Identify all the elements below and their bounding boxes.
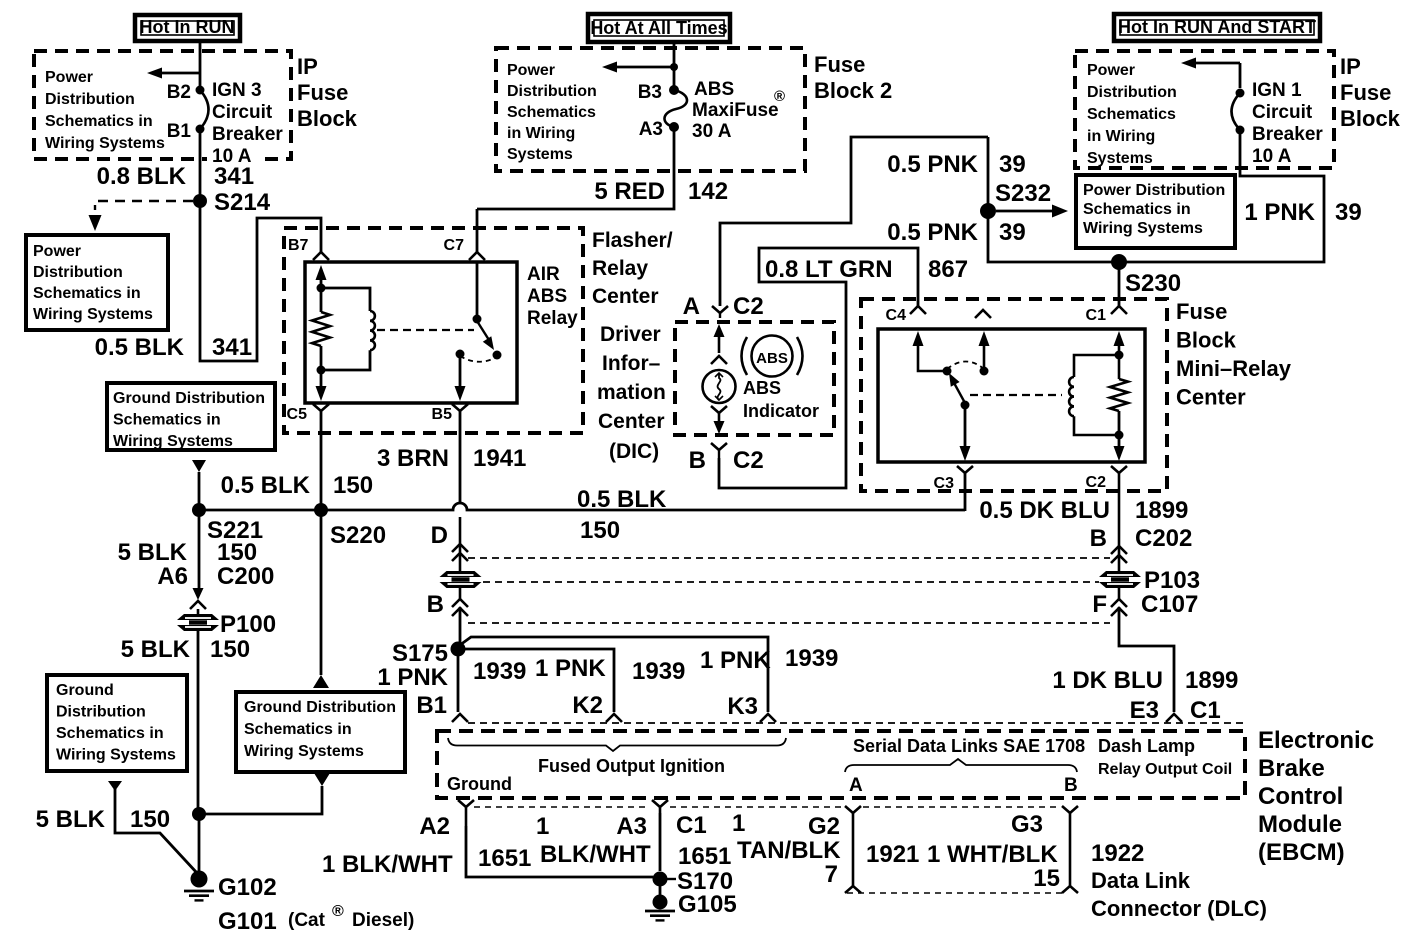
ground junction dot [192,807,206,821]
label box: Hot At All Times [588,14,730,42]
ground symbol G102 [184,890,214,893]
svg-text:C2: C2 [733,293,764,320]
wire: reference B down to G102 [115,789,197,873]
svg-text:BLK/WHT: BLK/WHT [540,841,651,868]
reference box: Power Distribution Schematics in Wiring Systems (solid, left) [26,235,168,330]
svg-text:1941: 1941 [473,445,526,472]
svg-text:Wiring Systems: Wiring Systems [33,306,153,323]
connector K3 chevron (EBCM) [760,714,776,722]
connector B5 [452,404,468,411]
svg-text:Power: Power [33,243,81,260]
wire: C7 into switch [476,262,479,319]
svg-text:K3: K3 [727,693,758,720]
connector C3 [957,466,973,473]
wire: Hot At All Times feed [673,42,676,86]
relay actuation dashed link [377,329,474,331]
EBCM connector face dashed line [468,722,1248,724]
svg-text:Fuse: Fuse [1176,299,1227,324]
IP Fuse Block dashed box (left) [34,51,291,159]
wire: contact down to C3 [964,405,967,449]
harness dashed line 2 [483,581,1099,583]
wire: branch to left arrow (fuse block 2) [614,66,674,69]
wire: DIC B down around 0.8 LT GRN label to C4 [719,248,918,488]
arrow into Power Distribution box [89,215,102,231]
wire: C1 down to S170 [659,813,662,871]
mini relay coil branch [1074,355,1119,377]
svg-text:39: 39 [999,219,1026,246]
svg-text:Infor–: Infor– [602,352,661,375]
in-line connector P103 [1099,571,1141,588]
mini relay contact dot right [980,367,989,376]
svg-text:1 WHT/BLK: 1 WHT/BLK [927,841,1058,868]
svg-text:867: 867 [928,256,968,283]
svg-text:1651: 1651 [678,843,731,870]
chevron below C200 arrow [190,601,206,609]
svg-text:Systems: Systems [507,146,573,163]
svg-text:B5: B5 [432,406,453,423]
wire: 0.5 PNK down from S232 and across to IGN1 riser [988,130,1324,262]
svg-text:Schematics in: Schematics in [244,721,352,738]
wire: junction to Ground Distribution reference C [199,786,322,814]
mini relay resistor [1110,379,1128,411]
svg-text:5 BLK: 5 BLK [36,806,106,833]
connector C7 chevron [469,252,485,260]
splice S214 [193,194,207,208]
svg-text:C7: C7 [444,237,465,254]
mini relay box [878,329,1145,462]
wire below mini resistor [1118,411,1121,435]
svg-text:A3: A3 [639,119,663,140]
svg-text:0.8 LT GRN: 0.8 LT GRN [765,256,893,283]
svg-text:B: B [1064,775,1078,796]
arrow into Power Distribution reference (fuse block 2) [602,62,617,73]
svg-text:Wiring Systems: Wiring Systems [113,433,233,450]
svg-text:(DIC): (DIC) [609,440,659,463]
terminal B3 dot [669,85,679,95]
svg-text:Hot At All Times: Hot At All Times [590,18,727,38]
junction dot at arrow branch [670,63,678,71]
DLC face dashed line [474,806,1060,808]
svg-text:1: 1 [536,813,549,840]
svg-text:S230: S230 [1125,270,1181,297]
svg-text:Power: Power [1087,62,1135,79]
arrow out bottom of relay (B5) [455,386,466,401]
svg-text:Flasher/: Flasher/ [592,229,673,252]
wire: C3 down to ground bus [964,473,967,511]
svg-text:1899: 1899 [1185,667,1238,694]
svg-text:C2: C2 [733,447,764,474]
svg-text:1899: 1899 [1135,497,1188,524]
relay coil [370,311,375,350]
wire: contact down to B5 [459,354,462,388]
svg-text:Ground: Ground [447,774,512,794]
svg-text:1 BLK/WHT: 1 BLK/WHT [322,851,453,878]
svg-text:S220: S220 [330,522,386,549]
terminal B2 dot [196,86,205,95]
wire: S230 down to C1 [1118,262,1121,306]
connector K2 chevron (EBCM) [606,714,622,722]
ground symbol G105 [645,910,675,913]
svg-text:150: 150 [130,806,170,833]
svg-text:Block: Block [1340,106,1401,131]
Flasher/Relay Center dashed box [284,228,583,433]
svg-text:1922: 1922 [1091,840,1144,867]
svg-text:G102: G102 [218,874,277,901]
svg-text:mation: mation [597,381,666,404]
arrow into Power Distribution reference [147,68,162,79]
in-line connector (B side) [440,571,482,588]
svg-text:Module: Module [1258,811,1342,838]
svg-text:Power Distribution: Power Distribution [1083,182,1225,199]
svg-text:Schematics in: Schematics in [33,285,141,302]
DLC pin A [845,806,861,813]
arrow up from right contact [983,343,986,371]
wire: S175 to K2 [458,649,614,712]
svg-text:341: 341 [212,334,252,361]
arrow to DIC box bottom [718,413,721,424]
relay winding junction dot bottom [317,366,326,375]
arrow into reference (IGN1) [1181,58,1196,69]
floating chevron above mini relay [975,310,991,318]
svg-text:150: 150 [217,539,257,566]
svg-text:Power: Power [45,69,93,86]
label box: Hot In RUN [135,15,240,41]
wire: D to in-line connector [459,517,462,571]
svg-text:B: B [1090,525,1107,552]
svg-text:Block 2: Block 2 [814,78,892,103]
svg-text:B: B [689,447,706,474]
mini relay actuation dashed link [970,394,1062,396]
svg-text:Block: Block [1176,328,1237,353]
wire: arrow branch (IGN1) [1193,62,1240,65]
svg-text:(EBCM): (EBCM) [1258,839,1345,866]
svg-text:®: ® [774,88,785,105]
svg-text:Schematics in: Schematics in [56,725,164,742]
svg-text:C3: C3 [934,475,955,492]
in-line connector P100 [177,614,219,631]
AIR ABS Relay box [305,262,517,403]
svg-text:Mini–Relay: Mini–Relay [1176,356,1292,381]
connector D chevrons [452,544,468,552]
svg-text:39: 39 [1335,199,1362,226]
svg-text:1: 1 [732,810,745,837]
connector A C2 at DIC [712,306,728,313]
mini relay switch pivot dot [943,367,952,376]
wire: Hot In RUN feed down to breaker B2 [199,41,202,86]
svg-text:Breaker: Breaker [1252,124,1323,145]
wire: S221 down to P100 [198,510,201,590]
svg-text:Relay: Relay [592,257,648,280]
relay winding junction dot top [317,284,326,293]
svg-text:Distribution: Distribution [507,83,597,100]
svg-text:Distribution: Distribution [1087,84,1177,101]
svg-text:C1: C1 [1086,307,1107,324]
svg-text:150: 150 [580,517,620,544]
mini relay winding dot top [1115,351,1124,360]
svg-text:Hot In RUN And START: Hot In RUN And START [1118,17,1316,37]
svg-text:A: A [683,293,700,320]
svg-text:S232: S232 [995,180,1051,207]
wire: B down to S175 [459,588,462,599]
ground bus wire with hop at D [199,503,965,510]
DLC pin B [1062,806,1078,813]
svg-text:F: F [1092,591,1107,618]
svg-text:1921: 1921 [866,841,919,868]
svg-text:B: B [427,591,444,618]
svg-text:Control: Control [1258,783,1343,810]
Fuse Block 2 dashed box [496,48,805,171]
wire: reference down to S221 [198,472,201,510]
svg-text:B7: B7 [288,237,309,254]
svg-text:C200: C200 [217,563,274,590]
relay resistor [312,312,330,346]
svg-text:Brake: Brake [1258,755,1325,782]
wire: 0.5 PNK from S232 run down to DIC connector A [720,137,988,306]
relay throw dashed arc [460,356,497,362]
svg-text:ABS: ABS [756,350,788,367]
svg-text:142: 142 [688,178,728,205]
svg-text:Wiring Systems: Wiring Systems [244,743,364,760]
svg-text:IP: IP [297,54,318,79]
svg-text:B1: B1 [167,121,192,142]
wire: 5 RED feed down to C7 [476,209,479,252]
connector C107 chevrons [1111,599,1127,607]
svg-text:Serial Data Links SAE 1708: Serial Data Links SAE 1708 [853,736,1085,756]
svg-text:TAN/BLK: TAN/BLK [737,837,841,864]
wire: S175 to K3 [460,637,768,712]
connector E3 chevron (EBCM) [1166,714,1182,722]
svg-text:ABS: ABS [743,378,781,398]
mini relay winding dot bottom [1115,431,1124,440]
wire: junction down to G102 [198,814,201,871]
wire: A2 down and over to S170 [466,826,653,877]
svg-text:S175: S175 [392,640,448,667]
reference box: Ground Distribution Schematics in Wiring Systems (C) [236,692,405,772]
svg-text:1 PNK: 1 PNK [1244,199,1315,226]
svg-text:P103: P103 [1144,567,1200,594]
connector C2 (mini relay) [1111,466,1127,473]
svg-text:Ground: Ground [56,682,114,699]
svg-text:1939: 1939 [785,645,838,672]
svg-text:5 RED: 5 RED [594,178,665,205]
triangle from Ground Distribution box A [192,460,206,472]
svg-text:Relay: Relay [527,308,578,329]
svg-text:S214: S214 [214,189,271,216]
svg-text:C2: C2 [1086,474,1107,491]
svg-text:C1: C1 [676,812,707,839]
svg-text:A6: A6 [157,563,188,590]
mini relay coil [1069,377,1074,416]
svg-text:A2: A2 [419,813,450,840]
svg-text:1651: 1651 [478,845,531,872]
svg-text:0.5 BLK: 0.5 BLK [577,486,667,513]
svg-text:in Wiring: in Wiring [507,125,575,142]
svg-text:30 A: 30 A [692,121,732,142]
svg-text:5 BLK: 5 BLK [121,636,191,663]
wire: S175 down to B1 [457,649,460,712]
svg-text:Driver: Driver [600,323,661,346]
svg-text:Center: Center [598,410,665,433]
splice S170 [653,872,668,887]
svg-text:Diesel): Diesel) [352,910,414,931]
wire: S220 down to reference C [320,510,323,675]
svg-text:ABS: ABS [527,286,567,307]
connector C202 chevrons [1111,546,1127,554]
svg-text:Wiring Systems: Wiring Systems [1083,220,1203,237]
arrow into DIC box [714,324,725,337]
splice S230 [1111,254,1127,270]
svg-text:B3: B3 [638,82,662,103]
svg-text:Fused Output Ignition: Fused Output Ignition [538,756,725,776]
ABS telltale right paren [797,337,803,375]
EBCM dashed box [437,731,1245,798]
svg-text:0.5 BLK: 0.5 BLK [95,334,185,361]
svg-text:C5: C5 [287,406,308,423]
tick to S170 label [667,878,676,880]
arrow out bottom (C2) [1114,446,1125,461]
svg-text:Power: Power [507,62,555,79]
svg-text:Block: Block [297,106,358,131]
svg-text:G105: G105 [678,891,737,918]
svg-text:Data Link: Data Link [1091,868,1191,893]
chevron below lamp [711,406,727,413]
relay coil branch return [321,350,370,370]
svg-text:Distribution: Distribution [33,264,123,281]
reference box: Power Distribution Schematics in Wiring Systems (right solid) [1076,175,1235,248]
triangle from Ground Distribution box C [314,773,330,786]
svg-text:IP: IP [1340,54,1361,79]
svg-text:Schematics: Schematics [507,104,596,121]
border gap under 10 A label [207,150,263,168]
svg-text:5 BLK: 5 BLK [118,539,188,566]
wire: P100 down to ground junction [197,631,200,814]
svg-text:Fuse: Fuse [297,80,348,105]
ABS telltale left paren [742,337,748,375]
connector B1 chevron (EBCM) [452,714,468,722]
svg-text:Circuit: Circuit [1252,102,1313,123]
wire: breaker B1 down to S214 [199,129,202,201]
connector A2 (EBCM bottom) [458,800,474,807]
DLC bottom dashed line [847,892,1063,894]
mini relay throw dashed arc [947,362,984,370]
svg-text:150: 150 [210,636,250,663]
svg-text:1 DK BLU: 1 DK BLU [1052,667,1163,694]
svg-text:Distribution: Distribution [56,704,146,721]
svg-text:Systems: Systems [1087,150,1153,167]
connector C4 chevron [910,306,926,314]
svg-text:G3: G3 [1011,811,1043,838]
wire: S214 down, over and up to B7 [200,201,321,361]
svg-text:Fuse: Fuse [1340,80,1391,105]
wire: A3 down and over to C7 [477,127,674,209]
splice S220 [314,503,328,517]
relay switch common dot [473,315,482,324]
svg-text:1 PNK: 1 PNK [700,647,771,674]
arrow into relay from C4 [913,331,924,346]
svg-text:Connector (DLC): Connector (DLC) [1091,896,1267,921]
harness dashed line 3 [468,622,1110,624]
arrow from S232 to Power Distribution reference [996,210,1054,213]
svg-text:AIR: AIR [527,264,560,285]
connector C1 (EBCM bottom) [652,800,668,807]
brace: Fused Output Ignition [448,738,786,751]
svg-text:Distribution: Distribution [45,91,135,108]
IP Fuse Block dashed box (right) [1075,51,1334,168]
reference box: Ground Distribution Schematics in Wiring Systems (A) [107,383,275,450]
terminal dot IGN1 top [1236,89,1245,98]
chevron above lamp [711,356,727,364]
relay switch arm [477,321,489,340]
svg-text:Schematics in: Schematics in [113,412,221,429]
svg-text:0.5 BLK: 0.5 BLK [221,472,311,499]
svg-text:G2: G2 [808,813,840,840]
svg-text:15: 15 [1033,865,1060,892]
svg-text:K2: K2 [572,692,603,719]
wire to P100 [197,609,200,614]
svg-text:Ground Distribution: Ground Distribution [113,390,265,407]
svg-text:Breaker: Breaker [212,124,283,145]
DIC indicator dashed box [675,322,834,435]
triangle below Ground Distribution box B [108,781,122,791]
circuit breaker IGN 3 element [200,90,209,129]
connector C1 chevron (mini relay) [1111,306,1127,314]
svg-text:0.8 BLK: 0.8 BLK [97,163,187,190]
connector C5 [313,404,329,411]
svg-text:Ground Distribution: Ground Distribution [244,699,396,716]
svg-text:P100: P100 [220,611,276,638]
svg-text:A: A [849,775,863,796]
svg-text:B1: B1 [416,692,447,719]
svg-text:MaxiFuse: MaxiFuse [692,100,779,121]
svg-text:Fuse: Fuse [814,52,865,77]
wire below resistor [320,346,323,370]
ground G102 dot [191,871,208,888]
arrow at C200 [193,588,204,600]
svg-text:341: 341 [214,163,254,190]
svg-text:0.5 PNK: 0.5 PNK [887,151,978,178]
mini relay coil return [1074,416,1119,435]
terminal dot IGN1 bottom [1236,126,1245,135]
wire: C5 down to S220 [320,411,323,510]
label box: Hot In RUN And START [1114,14,1320,41]
splice S221 [192,503,206,517]
ABS telltale symbol circle [752,336,793,377]
wire: C202 to P103 [1118,473,1121,571]
dashed reference wire from S214 [95,201,193,210]
svg-text:Hot In RUN: Hot In RUN [140,17,235,37]
svg-text:Dash Lamp: Dash Lamp [1098,736,1195,756]
connector B chevrons [452,599,468,607]
svg-text:0.5 DK BLU: 0.5 DK BLU [979,497,1110,524]
svg-text:Center: Center [592,285,659,308]
svg-text:in Wiring: in Wiring [1087,128,1155,145]
svg-text:0.5 PNK: 0.5 PNK [887,219,978,246]
mini relay switch arm [953,381,965,403]
splice S175 [451,642,466,657]
svg-text:Schematics in: Schematics in [1083,201,1191,218]
svg-text:1939: 1939 [473,658,526,685]
svg-text:3 BRN: 3 BRN [377,445,449,472]
arrow out bottom of relay (C5) [320,370,323,388]
svg-text:C1: C1 [1190,697,1221,724]
wire: C107 down over to E3 [1118,588,1121,599]
harness dashed line 1 [468,557,1110,559]
svg-text:G101: G101 [218,908,277,933]
svg-text:1 PNK: 1 PNK [377,664,448,691]
arrow out bottom (C3) [960,446,971,461]
ground G105 dot [653,895,668,910]
terminal B1 dot [196,125,205,134]
